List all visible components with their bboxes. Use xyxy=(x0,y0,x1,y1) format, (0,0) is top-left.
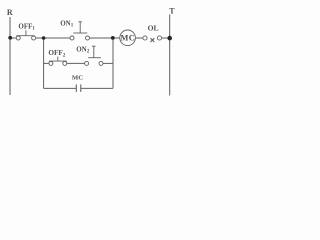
wire rung3 right xyxy=(81,87,113,89)
svg-text:OFF1: OFF1 xyxy=(18,22,35,31)
wire right branch riser xyxy=(112,38,114,88)
contact OFF2 stem xyxy=(57,57,59,62)
contact ON1 circle 2 xyxy=(86,36,90,40)
contact ON2 circle 2 xyxy=(99,61,103,65)
contact ON2 stem top tick xyxy=(92,45,96,47)
wire rung3 left xyxy=(44,87,76,89)
contact OFF2 bridge bar xyxy=(49,60,67,62)
wire OFF2 to ON2 xyxy=(67,62,85,64)
contact ON1 stem xyxy=(79,22,81,33)
svg-text:OFF2: OFF2 xyxy=(48,49,65,58)
contact OFF1 circle 2 xyxy=(32,36,36,40)
wire OL to right rail xyxy=(162,37,170,39)
svg-text:T: T xyxy=(169,7,175,16)
left rail R xyxy=(9,17,11,95)
wire coil MC to OL xyxy=(135,37,142,39)
contact ON2 circle 1 xyxy=(85,61,89,65)
svg-text:ON1: ON1 xyxy=(60,19,73,28)
svg-text:OL: OL xyxy=(148,23,159,32)
junction node B dot xyxy=(111,36,115,40)
svg-text:ON2: ON2 xyxy=(76,46,90,55)
contact OFF1 circle 1 xyxy=(16,36,20,40)
wire rung2 left xyxy=(44,62,49,64)
contact ON1 bridge bar xyxy=(73,32,87,34)
overload OL cross xyxy=(151,38,155,42)
wire node B to coil MC xyxy=(113,37,120,39)
contact OFF2 circle 2 xyxy=(63,61,67,65)
contact MC bar 1 xyxy=(75,84,77,92)
junction dot rail T / rung1 xyxy=(167,36,172,41)
coil MC circle xyxy=(120,30,136,46)
wire left branch drop xyxy=(43,38,45,88)
contact ON2 bridge bar xyxy=(88,57,101,59)
svg-text:R: R xyxy=(7,8,13,17)
junction dot rail R / rung1 xyxy=(8,36,12,40)
contact OFF1 bridge bar xyxy=(16,35,34,37)
wire rail to OFF1 xyxy=(10,37,16,39)
contact OFF1 stem xyxy=(25,30,27,36)
wire ON2 to right riser xyxy=(103,62,113,64)
contact ON2 stem xyxy=(93,46,95,58)
overload OL circle 1 xyxy=(143,36,147,40)
wire OFF1 to ON1 xyxy=(36,37,70,39)
contact ON1 stem top tick xyxy=(78,21,82,23)
svg-text:MC: MC xyxy=(121,34,136,43)
wire ON1 to node B xyxy=(90,37,113,39)
contact MC bar 2 xyxy=(80,84,82,92)
right rail T xyxy=(169,15,171,96)
svg-text:MC: MC xyxy=(72,74,83,81)
contact OFF2 circle 1 xyxy=(49,61,53,65)
overload OL circle 2 xyxy=(157,36,161,40)
contact ON1 circle 1 xyxy=(70,36,74,40)
junction node A dot xyxy=(42,36,46,40)
